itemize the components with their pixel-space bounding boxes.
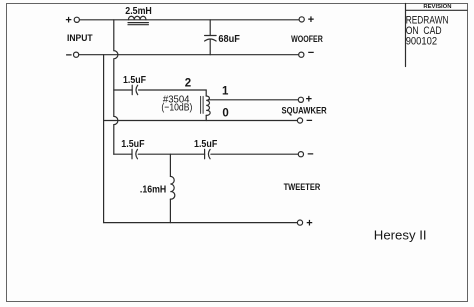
wire: tap 1 to squawker +: [208, 99, 298, 101]
autotransformer T1 coil: [206, 96, 210, 115]
svg-text:REVISION: REVISION: [423, 4, 451, 10]
svg-text:2.5mH: 2.5mH: [125, 5, 152, 17]
svg-text:INPUT: INPUT: [67, 33, 93, 43]
capacitor C4 1.5uF: [205, 149, 211, 158]
svg-text:WOOFER: WOOFER: [291, 34, 323, 44]
input + terminal: [74, 17, 79, 22]
squawker bottom wire (node 0): [104, 120, 298, 122]
wire: C4 to tweeter -: [211, 153, 298, 155]
positive bus wire (x=113.8) with hops: [114, 20, 118, 154]
svg-text:−: −: [307, 149, 313, 161]
svg-text:68uF: 68uF: [218, 33, 240, 45]
svg-text:(−10dB): (−10dB): [161, 102, 192, 114]
svg-text:2: 2: [185, 78, 191, 90]
inductor L1 core: [128, 23, 148, 25]
svg-text:1.5uF: 1.5uF: [121, 138, 145, 150]
svg-text:1.5uF: 1.5uF: [123, 74, 146, 86]
squawker + terminal: [298, 97, 303, 102]
squawker top wire (node 2): [114, 89, 132, 91]
inductor L2 .16mH coil: [170, 176, 174, 199]
svg-text:1: 1: [222, 86, 229, 98]
input - terminal: [74, 52, 79, 57]
squawker - terminal: [297, 118, 302, 123]
capacitor C2 1.5uF: [132, 85, 138, 94]
svg-text:−: −: [306, 115, 312, 127]
svg-text:−: −: [308, 47, 314, 59]
svg-text:0: 0: [222, 107, 228, 119]
inductor L2 branch wire bottom: [169, 199, 171, 223]
tweeter bottom wire: [104, 222, 298, 224]
svg-text:1.5uF: 1.5uF: [194, 138, 218, 150]
wire: transformer bottom to node 0: [205, 115, 207, 120]
tweeter + terminal: [297, 220, 302, 225]
svg-text:+: +: [306, 218, 312, 230]
svg-text:+: +: [65, 15, 71, 27]
svg-text:−: −: [66, 49, 72, 61]
woofer + terminal: [299, 17, 304, 22]
capacitor C1 68uF branch wire bottom: [209, 39, 211, 54]
wire: C2 to transformer top: [139, 90, 207, 96]
svg-text:SQUAWKER: SQUAWKER: [282, 105, 328, 115]
capacitor C1 68uF plates: [205, 36, 217, 42]
capacitor C3 1.5uF: [132, 149, 138, 158]
negative bus wire (x=103.6): [103, 55, 105, 223]
tweeter top wire: [114, 153, 132, 155]
capacitor C1 68uF branch wire top: [209, 20, 211, 36]
wire: C3 to C4: [138, 153, 204, 155]
inductor L1 2.5mH: [128, 16, 146, 20]
wire: input - to woofer -: [79, 54, 298, 56]
title block border: [406, 4, 468, 67]
wire: input + to woofer +: [80, 19, 299, 21]
svg-text:900102: 900102: [406, 36, 437, 48]
svg-text:+: +: [308, 14, 314, 26]
svg-text:+: +: [306, 94, 312, 106]
svg-text:TWEETER: TWEETER: [284, 182, 321, 192]
svg-text:Heresy II: Heresy II: [374, 227, 427, 242]
woofer - terminal: [299, 52, 304, 57]
autotransformer T1 core: [201, 96, 204, 113]
tweeter - terminal: [298, 152, 303, 157]
inductor L2 branch wire top: [169, 154, 171, 176]
svg-text:.16mH: .16mH: [140, 184, 166, 196]
